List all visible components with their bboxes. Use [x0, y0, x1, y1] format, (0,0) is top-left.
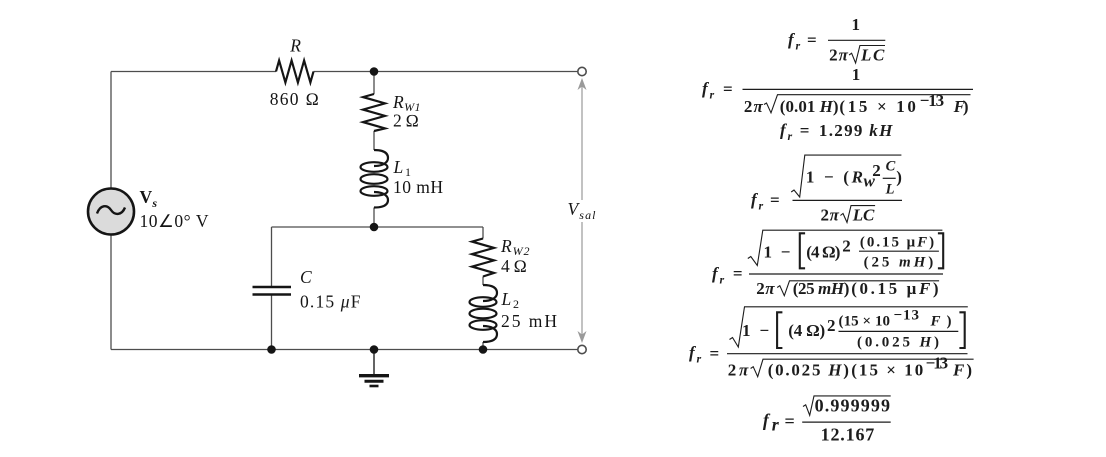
svg-text:12.167: 12.167: [821, 425, 875, 445]
svg-text:=: =: [770, 191, 780, 210]
svg-text:(4 Ω): (4 Ω): [788, 321, 825, 340]
svg-text:1 −: 1 −: [764, 243, 791, 262]
resistor RW1: [363, 94, 385, 131]
equation 1: fr = 1/(2pi sqrt(LC)): [788, 15, 885, 64]
svg-text:L: L: [885, 182, 895, 198]
svg-text:F): F): [952, 361, 972, 380]
svg-text:f: f: [763, 410, 771, 430]
svg-text:=: =: [733, 264, 743, 283]
svg-text:r: r: [772, 414, 780, 434]
svg-text:(0.15 μF): (0.15 μF): [851, 279, 938, 298]
node dot bottom C: [267, 345, 276, 354]
wire top horizontal left: [111, 71, 276, 73]
svg-text:10∠0° V: 10∠0° V: [140, 211, 209, 231]
svg-text:(0.025 H): (0.025 H): [857, 334, 939, 350]
svg-text:r: r: [697, 352, 702, 366]
wire RW2 branch top: [482, 227, 484, 239]
wire left vertical top: [110, 72, 112, 188]
source Vs circle: [88, 189, 134, 235]
terminal bottom: [578, 345, 586, 353]
svg-text:2π: 2π: [756, 279, 775, 298]
capacitor C plates: [253, 286, 292, 289]
svg-text:(15 × 10: (15 × 10: [839, 313, 891, 329]
svg-text:r: r: [720, 272, 725, 286]
svg-text:2: 2: [827, 316, 836, 335]
wire capacitor bottom: [271, 295, 273, 350]
svg-text:4 Ω: 4 Ω: [501, 256, 527, 276]
svg-text:C: C: [300, 267, 312, 287]
svg-text:1 −: 1 −: [742, 321, 769, 340]
svg-text:): ): [947, 313, 952, 329]
equation 2: fr = 1/(2pi sqrt((0.01 H)(15e-13 F))): [702, 65, 973, 116]
svg-text:LC: LC: [860, 45, 885, 64]
resistor R: [276, 61, 314, 83]
terminal top: [578, 67, 586, 75]
svg-text:(0.15 μF): (0.15 μF): [860, 235, 934, 251]
source sine wave: [97, 206, 125, 214]
wire bottom horizontal: [111, 349, 578, 351]
svg-text:(0.01 H): (0.01 H): [780, 97, 839, 116]
svg-text:10 mH: 10 mH: [393, 177, 443, 197]
wire L1 to middle node: [373, 208, 375, 228]
svg-text:LC: LC: [852, 205, 875, 224]
wire capacitor top: [271, 227, 273, 287]
Vsal arrow line top: [581, 84, 583, 200]
svg-text:r: r: [796, 38, 801, 52]
equation 3: fr = 1.299 kH: [780, 121, 893, 144]
svg-text:=: =: [807, 31, 817, 50]
svg-text:1 − (R: 1 − (R: [806, 168, 863, 187]
svg-text:(0.025 H): (0.025 H): [768, 361, 849, 380]
svg-text:2: 2: [872, 161, 881, 180]
node dot top: [370, 67, 379, 76]
svg-text:−13: −13: [920, 91, 944, 110]
svg-text:0.15 μF: 0.15 μF: [300, 292, 361, 312]
svg-text:r: r: [710, 87, 715, 101]
node dot middle: [370, 223, 379, 232]
wire top horizontal right: [314, 71, 578, 73]
node dot bottom L2: [479, 345, 488, 354]
svg-text:2 Ω: 2 Ω: [393, 111, 419, 131]
svg-text:25 mH: 25 mH: [501, 311, 557, 331]
svg-text:−13: −13: [894, 308, 920, 324]
wire middle horizontal: [272, 226, 484, 228]
svg-text:Vsal: Vsal: [568, 199, 597, 222]
svg-text:F: F: [930, 313, 941, 329]
svg-text:1.299 kH: 1.299 kH: [819, 121, 893, 140]
equation 5: fr = sqrt(1-[(4ohm)^2 (0.15uF)/(25mH)])/(2pi sqrt((25mH)(0.15uF))): [712, 230, 943, 298]
svg-text:−13: −13: [926, 354, 949, 373]
wire L2 to bottom: [482, 342, 484, 350]
svg-text:Vs: Vs: [140, 187, 158, 210]
resistor RW2: [472, 239, 494, 277]
svg-text:R: R: [289, 36, 301, 56]
equation 7: fr = sqrt(0.999999)/12.167: [763, 395, 891, 444]
svg-text:C: C: [886, 159, 896, 175]
ground: [359, 374, 389, 377]
svg-text:r: r: [788, 129, 793, 143]
wire ground stem: [373, 350, 375, 375]
svg-text:RW2: RW2: [500, 236, 530, 258]
wire RW2 to L2: [482, 277, 484, 286]
wire RW1 branch top: [373, 72, 375, 95]
Vsal arrowhead down: [578, 331, 587, 343]
svg-text:2π: 2π: [829, 45, 849, 64]
svg-text:2π: 2π: [821, 205, 840, 224]
svg-text:2: 2: [842, 237, 851, 256]
svg-text:(15 × 10: (15 × 10: [839, 97, 916, 116]
svg-text:r: r: [759, 199, 764, 213]
svg-text:0.999999: 0.999999: [815, 395, 890, 415]
svg-text:1: 1: [852, 65, 861, 84]
svg-text:(4 Ω): (4 Ω): [806, 243, 840, 262]
node dot bottom ground: [370, 345, 379, 354]
svg-text:=: =: [710, 344, 720, 363]
Vsal arrow line bottom: [581, 222, 583, 337]
svg-text:1: 1: [851, 15, 860, 34]
svg-text:=: =: [723, 80, 733, 99]
svg-text:L1: L1: [393, 157, 412, 179]
wire left vertical bottom: [110, 236, 112, 350]
equation 4: fr = sqrt(1-(Rw^2 C/L))/(2pi sqrt(LC)): [751, 155, 902, 224]
Vsal arrowhead up: [578, 78, 587, 90]
svg-text:(25 mH): (25 mH): [864, 255, 934, 271]
svg-text:(25 mH): (25 mH): [793, 279, 850, 298]
equation 6: fr = sqrt(1-[(4ohm)^2 (15e-13F)/(0.025H)])/(2pi sqrt((0.025H)(15e-13F))): [689, 307, 974, 380]
svg-text:860 Ω: 860 Ω: [270, 89, 319, 109]
wire RW1 to L1: [373, 131, 375, 150]
inductor L1: [374, 150, 388, 166]
svg-text:=: =: [785, 411, 795, 431]
svg-text:L2: L2: [501, 289, 520, 311]
inductor L2: [483, 285, 497, 301]
svg-text:2π: 2π: [744, 97, 764, 116]
svg-text:): ): [896, 168, 902, 187]
svg-text:=: =: [800, 121, 810, 140]
svg-text:F): F): [953, 97, 969, 116]
svg-text:2π: 2π: [728, 361, 749, 380]
svg-text:(15 × 10: (15 × 10: [851, 361, 923, 380]
